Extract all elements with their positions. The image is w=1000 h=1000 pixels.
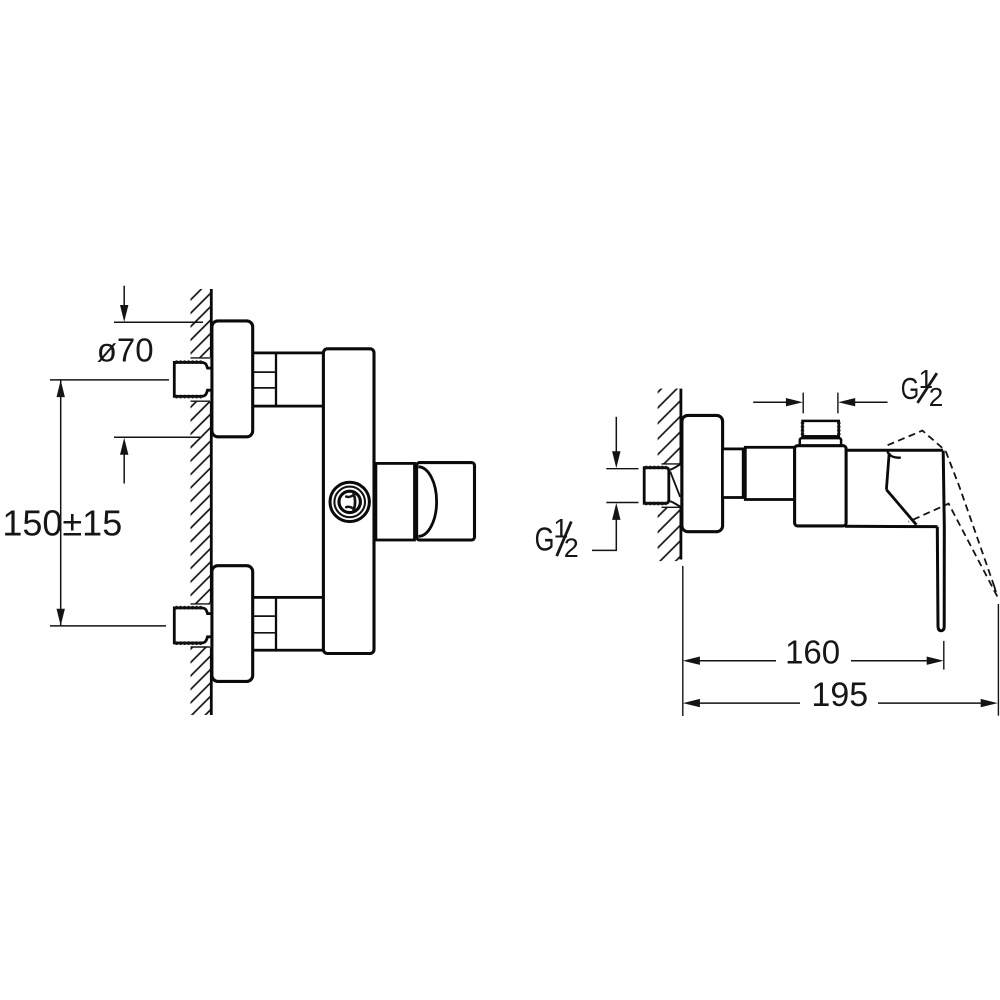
- dim 160 right extension line: [943, 641, 945, 670]
- svg-text:150±15: 150±15: [2, 503, 122, 544]
- screw cap: [330, 482, 369, 521]
- left wall hatch: [191, 289, 211, 715]
- dim G1/2 top: left-pointing arrow: [838, 398, 887, 406]
- dim G1/2 left: down arrow: [612, 417, 620, 469]
- dim 150±15 bottom extension line: [50, 625, 166, 627]
- mixer body (side view): [795, 446, 847, 526]
- top supply pipe (hex + sleeve): [252, 353, 324, 406]
- dim ø70 bottom extension line: [114, 436, 200, 438]
- bottom flange: [212, 566, 253, 682]
- svg-text:160: 160: [785, 634, 840, 671]
- right wall hole: [656, 464, 680, 508]
- svg-text:G: G: [535, 521, 555, 558]
- right pipe large: [745, 447, 794, 499]
- right flange: [682, 415, 723, 531]
- dim 160 line: [683, 657, 944, 665]
- dim 150±15 line with arrows: [57, 380, 65, 626]
- handle neck (front view): [376, 463, 415, 540]
- handle (side view) dashed raised position: [888, 431, 998, 597]
- dim ø70 top extension line: [114, 321, 203, 323]
- dim G1/2 top label: [901, 364, 943, 412]
- svg-text:ø70: ø70: [97, 332, 154, 369]
- dim G1/2 top: right-pointing arrow: [753, 398, 803, 406]
- right wall hatch: [658, 389, 681, 561]
- handle knob (front view): [417, 463, 475, 540]
- handle knob cap arc: [418, 467, 436, 537]
- left wall top hole: [189, 357, 213, 401]
- bottom supply nut: [174, 608, 212, 644]
- left wall surface line: [210, 289, 213, 715]
- svg-text:2: 2: [929, 382, 943, 412]
- dim G1/2 left: up arrow with leader: [592, 503, 621, 551]
- top flange: [212, 321, 253, 437]
- svg-text:2: 2: [564, 533, 579, 563]
- svg-text:G: G: [901, 371, 920, 406]
- dim 195 right extension line: [997, 604, 999, 716]
- dim 150±15 top extension line: [50, 379, 169, 381]
- top supply nut: [174, 362, 212, 396]
- right supply nut with cone: [644, 464, 681, 507]
- right wall surface line: [680, 389, 683, 560]
- dim ø70 up arrow: [120, 438, 128, 484]
- svg-text:195: 195: [811, 676, 868, 714]
- dim 160/195 left extension line: [682, 566, 684, 716]
- dim G1/2 top: extension lines: [802, 393, 804, 414]
- dim 195 line: [683, 699, 998, 707]
- bottom supply pipe (hex + sleeve): [252, 597, 324, 650]
- outlet thread: [803, 421, 839, 436]
- right pipe small: [722, 449, 743, 498]
- dim G1/2 left: extension lines: [606, 468, 638, 470]
- dim G1/2 left label: [535, 514, 579, 563]
- mixer body (front view): [323, 349, 374, 654]
- dim ø70 down arrow: [120, 286, 128, 322]
- handle (side view) solid: [845, 450, 944, 630]
- left wall bottom hole: [189, 603, 213, 647]
- outlet collar: [800, 438, 841, 447]
